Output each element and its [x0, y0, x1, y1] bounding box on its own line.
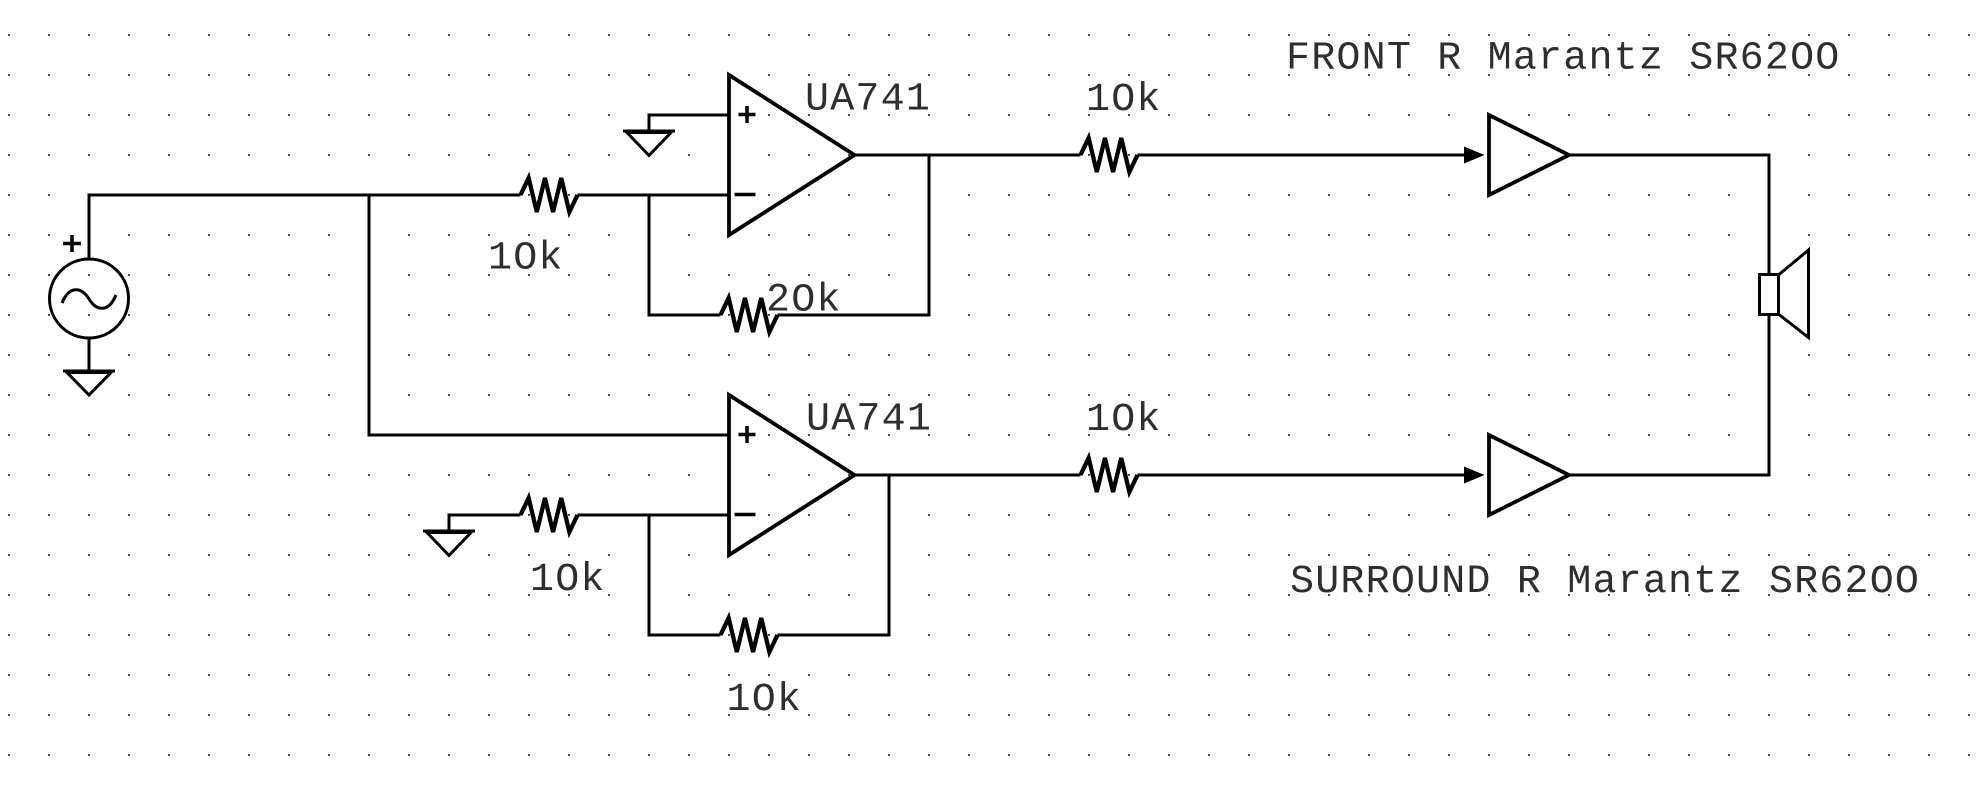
svg-text:FRONT R Marantz SR62OO: FRONT R Marantz SR62OO — [1286, 37, 1841, 82]
svg-text:1Ok: 1Ok — [727, 678, 803, 723]
svg-text:UA741: UA741 — [805, 78, 931, 123]
svg-text:1Ok: 1Ok — [488, 237, 564, 282]
svg-text:1Ok: 1Ok — [530, 558, 606, 603]
svg-text:2Ok: 2Ok — [766, 279, 842, 324]
svg-text:1Ok: 1Ok — [1086, 398, 1162, 443]
svg-text:UA741: UA741 — [806, 398, 932, 443]
svg-text:1Ok: 1Ok — [1086, 78, 1162, 123]
svg-text:SURROUND R Marantz SR62OO: SURROUND R Marantz SR62OO — [1290, 560, 1920, 605]
